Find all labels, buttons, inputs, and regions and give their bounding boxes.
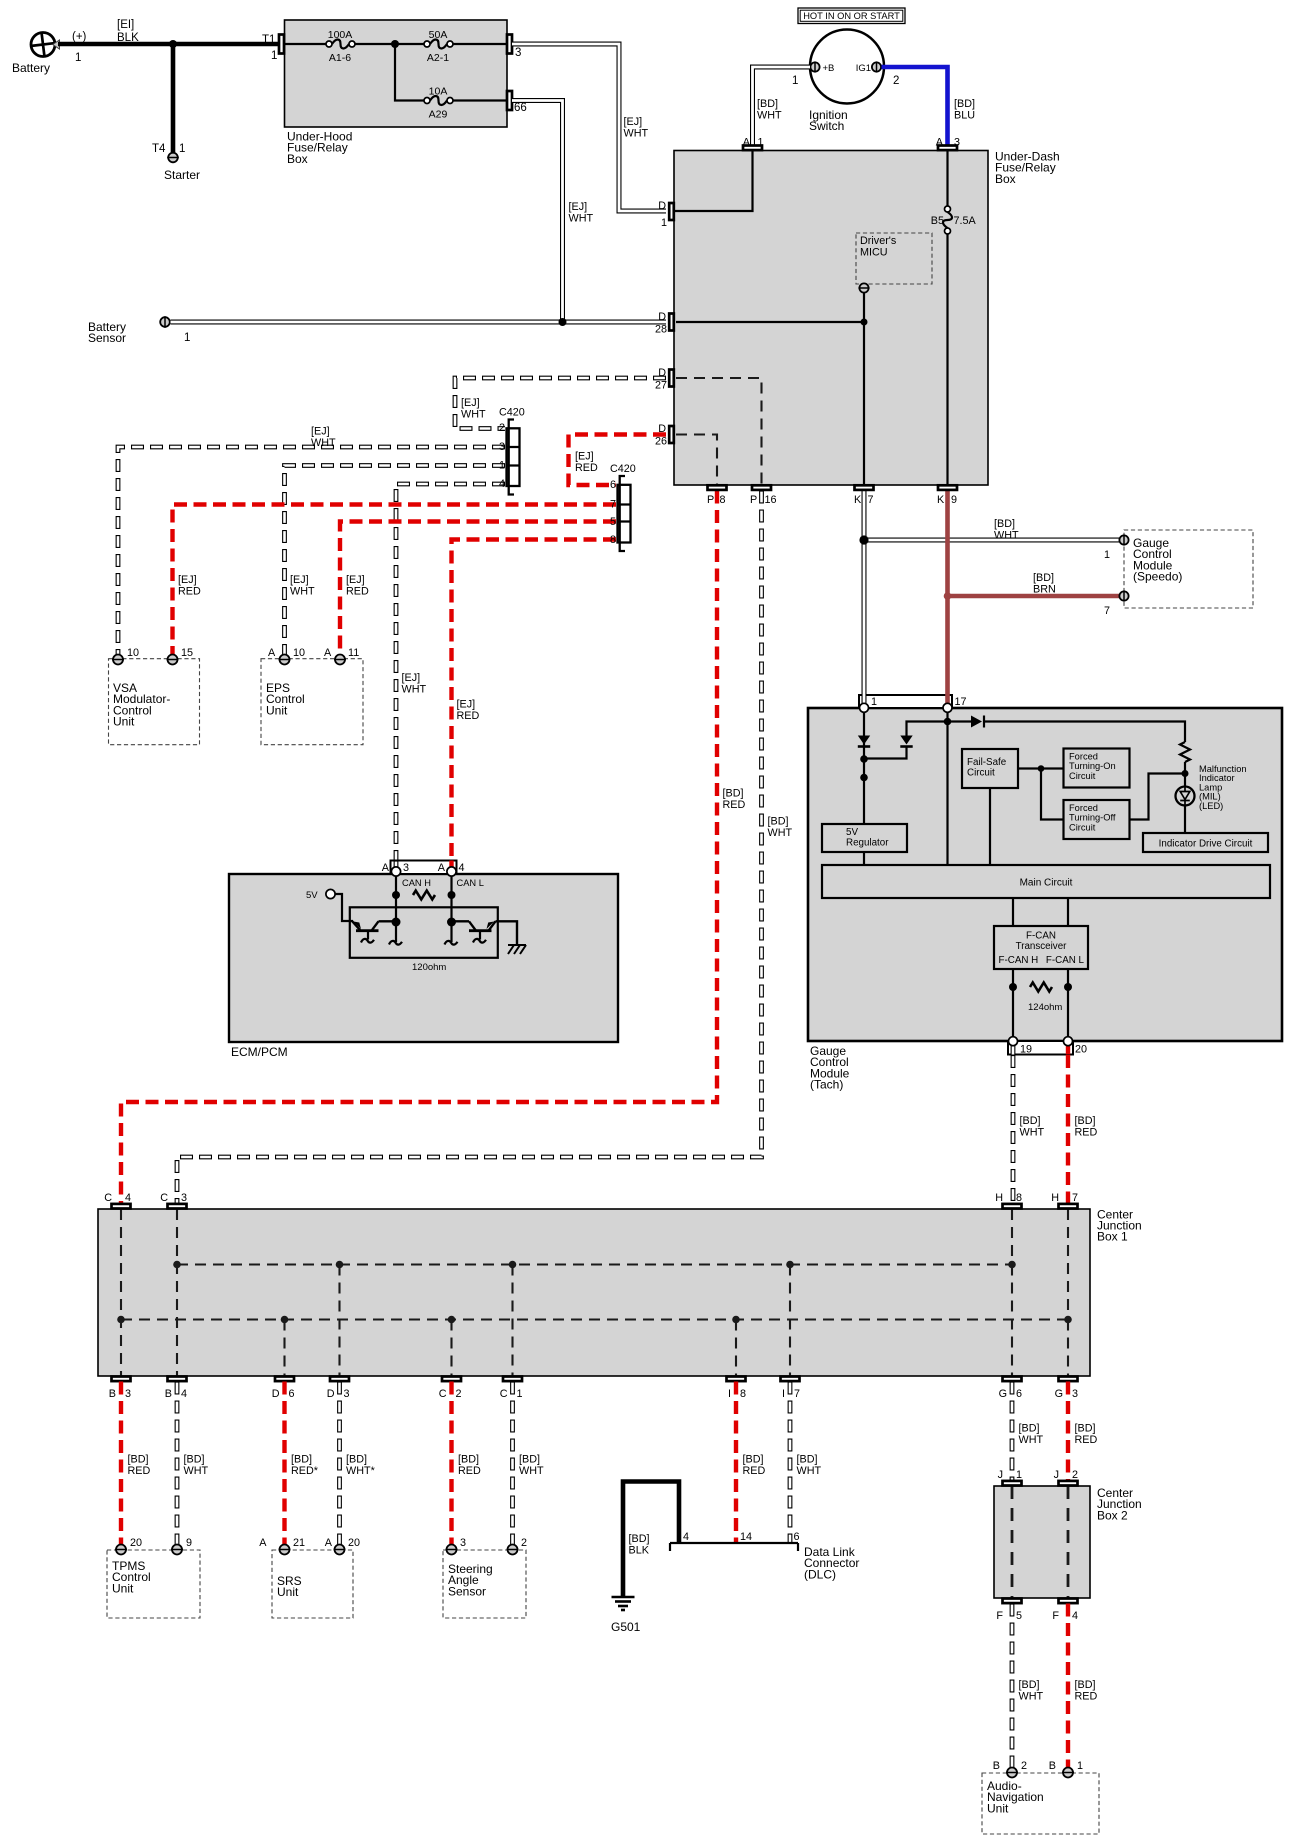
svg-text:4: 4 — [125, 1192, 131, 1204]
connector C420 lower — [610, 463, 636, 551]
junction CAN L — [448, 891, 456, 899]
svg-text:WHT: WHT — [1020, 1126, 1045, 1138]
wire [BD] WHT C1 to steering angle sensor 2 — [513, 1382, 544, 1545]
wire in fuse box upper row — [285, 43, 508, 45]
tach junction d — [1182, 770, 1189, 777]
svg-text:5V: 5V — [306, 890, 318, 901]
svg-text:[EJ]: [EJ] — [290, 574, 309, 586]
ECM 120ohm resistor — [412, 891, 446, 973]
wire [BD] WHT K7 to tach pin1 and speedo pin1 — [864, 491, 1120, 697]
fuse A2-1 50A — [424, 29, 453, 64]
wire [BD] WHT I7 to DLC 6 — [790, 1382, 821, 1544]
svg-text:20: 20 — [130, 1537, 142, 1549]
svg-text:A29: A29 — [429, 109, 448, 121]
svg-text:T1: T1 — [262, 34, 275, 46]
connector K7 — [854, 485, 874, 506]
svg-text:Box: Box — [995, 172, 1016, 186]
gauge control module (speedo) — [1119, 530, 1253, 608]
svg-text:6: 6 — [1016, 1388, 1022, 1400]
svg-text:3: 3 — [515, 47, 521, 59]
svg-text:Unit: Unit — [987, 1801, 1009, 1815]
svg-text:P: P — [707, 494, 714, 506]
svg-text:9: 9 — [186, 1537, 192, 1549]
svg-text:3: 3 — [403, 862, 409, 874]
svg-text:Fail-Safe: Fail-Safe — [967, 757, 1007, 768]
connector D28 — [655, 311, 674, 336]
fuse A1-6 100A — [326, 29, 355, 64]
svg-text:D: D — [658, 200, 666, 212]
svg-text:1: 1 — [871, 696, 877, 708]
svg-text:I: I — [782, 1388, 785, 1400]
svg-text:F-CAN H: F-CAN H — [999, 955, 1039, 966]
svg-text:6: 6 — [289, 1388, 295, 1400]
svg-text:2: 2 — [893, 75, 899, 87]
connector A3 — [936, 137, 960, 151]
svg-text:[BD]: [BD] — [184, 1454, 205, 1466]
svg-text:1: 1 — [179, 143, 185, 155]
svg-text:G: G — [999, 1388, 1007, 1400]
wire [EJ] WHT pin66 to battery sensor line — [512, 101, 593, 323]
svg-text:20: 20 — [1075, 1044, 1087, 1056]
wire [EJ] RED C420 pin8 to ECM pinA4 — [452, 540, 617, 867]
ECM 5V supply — [306, 889, 353, 921]
svg-text:WHT: WHT — [1019, 1690, 1044, 1702]
ECM left transistor — [352, 921, 392, 943]
connector I7 — [781, 1377, 801, 1401]
connector T1 pin 1 — [262, 34, 284, 62]
svg-text:Turning-Off: Turning-Off — [1069, 813, 1116, 823]
svg-text:[BD]: [BD] — [723, 788, 744, 800]
5V regulator — [822, 824, 907, 865]
wire [BD] RED* D6 to SRS A21 — [285, 1382, 319, 1545]
svg-text:J: J — [1054, 1469, 1059, 1481]
svg-text:Sensor: Sensor — [448, 1584, 486, 1598]
svg-text:WHT*: WHT* — [346, 1465, 376, 1477]
svg-text:B: B — [993, 1760, 1000, 1772]
svg-text:Box 2: Box 2 — [1097, 1508, 1128, 1522]
svg-text:A: A — [324, 647, 332, 659]
wire [BD] WHT B4 to TPMS 9 — [177, 1382, 208, 1545]
svg-text:BLU: BLU — [954, 109, 975, 121]
svg-text:1: 1 — [499, 460, 505, 472]
svg-text:5: 5 — [1016, 1610, 1022, 1622]
wire [EJ] WHT D27 to C420 pin2 — [455, 378, 666, 429]
tach wire pin1 branch — [863, 712, 865, 824]
svg-text:(+): (+) — [72, 31, 87, 43]
wire [BD] RED tach pin20 to H7 — [1068, 1055, 1097, 1203]
connector D27 — [655, 367, 674, 392]
forced turning-on circuit — [1064, 749, 1130, 788]
svg-text:10A: 10A — [429, 86, 448, 98]
svg-text:[BD]: [BD] — [458, 1454, 479, 1466]
center junction box 1 — [98, 1207, 1142, 1376]
svg-text:26: 26 — [655, 436, 667, 448]
tach branch to forced turning-off — [1130, 774, 1186, 820]
indicator drive circuit — [1143, 833, 1268, 852]
audio-navigation unit — [982, 1760, 1099, 1834]
connector F5 — [996, 1599, 1022, 1623]
CJB1 internal bus wires — [121, 1209, 1068, 1376]
svg-text:IG1: IG1 — [856, 63, 871, 74]
CJB1 bus junctions row1 — [173, 1261, 1016, 1269]
fuse B5 7.5A — [931, 206, 977, 234]
svg-text:[BD]: [BD] — [1019, 1423, 1040, 1435]
tach wires main to F-CAN transceiver — [1013, 898, 1068, 926]
svg-text:F-CAN: F-CAN — [1026, 931, 1056, 942]
svg-text:1: 1 — [792, 75, 798, 87]
svg-text:G: G — [1055, 1388, 1063, 1400]
svg-text:K: K — [937, 494, 945, 506]
wire [EJ] RED D26 to C420 pin6 — [569, 435, 667, 486]
center junction box 2 — [994, 1486, 1142, 1598]
svg-text:[BD]: [BD] — [1075, 1679, 1096, 1691]
wire [BD] BLK DLC 4 to G501 — [623, 1482, 679, 1597]
svg-text:[BD]: [BD] — [757, 98, 778, 110]
connector G6 — [999, 1377, 1022, 1401]
svg-text:WHT: WHT — [461, 408, 486, 420]
svg-text:27: 27 — [655, 380, 667, 392]
svg-text:A: A — [438, 862, 446, 874]
svg-text:3: 3 — [460, 1537, 466, 1549]
svg-text:+B: +B — [823, 63, 835, 74]
connector C2 — [439, 1377, 462, 1401]
svg-text:C: C — [160, 1192, 168, 1204]
wire to starter — [171, 44, 176, 152]
tach diode 3 and top rail — [948, 716, 1186, 743]
svg-text:Box 1: Box 1 — [1097, 1230, 1128, 1244]
svg-text:[EI]: [EI] — [117, 19, 134, 31]
svg-text:D: D — [272, 1388, 280, 1400]
wire [EJ] RED C420 pin5 to EPS pinA11 — [340, 522, 616, 655]
svg-text:7: 7 — [794, 1388, 800, 1400]
wire [BD] WHT ignition +B to A1 — [753, 67, 811, 145]
fail-safe circuit — [962, 749, 1018, 788]
svg-text:Driver's: Driver's — [860, 235, 897, 247]
svg-text:B5: B5 — [931, 215, 944, 227]
svg-text:WHT: WHT — [797, 1465, 822, 1477]
svg-text:Forced: Forced — [1069, 803, 1098, 813]
ignition switch — [792, 30, 899, 134]
svg-text:RED: RED — [346, 585, 369, 597]
svg-text:[EJ]: [EJ] — [575, 451, 594, 463]
wire [BD] RED P8 to C4 — [121, 491, 745, 1204]
svg-text:H: H — [1051, 1192, 1059, 1204]
connector P16 — [750, 485, 777, 506]
svg-text:Main Circuit: Main Circuit — [1020, 878, 1073, 889]
connector I8 — [727, 1377, 747, 1401]
svg-text:WHT: WHT — [768, 827, 793, 839]
SRS unit — [259, 1537, 360, 1618]
battery — [12, 31, 87, 75]
svg-text:3: 3 — [125, 1388, 131, 1400]
connector C4 — [104, 1192, 131, 1209]
svg-text:7: 7 — [610, 499, 616, 511]
svg-text:WHT: WHT — [184, 1465, 209, 1477]
svg-text:Circuit: Circuit — [967, 768, 995, 779]
svg-text:C: C — [500, 1388, 508, 1400]
svg-text:[BD]: [BD] — [629, 1533, 650, 1545]
svg-text:8: 8 — [1016, 1192, 1022, 1204]
tach diode 1 — [858, 736, 870, 745]
under-hood fuse/relay box — [285, 20, 508, 166]
svg-text:4: 4 — [181, 1388, 187, 1400]
svg-text:8: 8 — [720, 494, 726, 506]
svg-text:[BD]: [BD] — [1019, 1679, 1040, 1691]
svg-text:124ohm: 124ohm — [1028, 1002, 1062, 1013]
svg-text:[BD]: [BD] — [291, 1454, 312, 1466]
svg-text:I: I — [728, 1388, 731, 1400]
svg-text:F-CAN L: F-CAN L — [1046, 955, 1085, 966]
CJB1 bus junctions row2 — [117, 1316, 1072, 1324]
svg-text:K: K — [854, 494, 862, 506]
connector C3 — [160, 1192, 187, 1209]
tach wires F-CAN down to pins 19/20 — [1013, 969, 1068, 1036]
svg-text:15: 15 — [181, 647, 193, 659]
svg-text:Regulator: Regulator — [846, 838, 889, 849]
ECM connector A3/A4 — [382, 861, 465, 877]
svg-text:HOT IN ON OR START: HOT IN ON OR START — [803, 11, 900, 21]
svg-text:1: 1 — [758, 137, 764, 149]
junction in fuse box — [391, 40, 399, 48]
svg-text:8: 8 — [610, 534, 616, 546]
svg-text:Circuit: Circuit — [1069, 822, 1096, 832]
forced turning-off circuit — [1064, 800, 1130, 839]
svg-text:3: 3 — [344, 1388, 350, 1400]
svg-text:Sensor: Sensor — [88, 331, 126, 345]
tach main circuit — [822, 865, 1270, 898]
wire [BD] WHT P16 to C3 — [177, 491, 792, 1204]
tach resistor — [1180, 742, 1190, 762]
data link connector DLC — [670, 1531, 859, 1581]
svg-text:4: 4 — [459, 862, 465, 874]
svg-text:1: 1 — [184, 332, 190, 344]
svg-text:5: 5 — [610, 516, 616, 528]
ECM right transistor — [456, 921, 496, 942]
svg-text:[EJ]: [EJ] — [346, 574, 365, 586]
svg-text:16: 16 — [765, 494, 777, 506]
connector J1 — [998, 1469, 1022, 1486]
svg-text:[EJ]: [EJ] — [461, 397, 480, 409]
svg-text:[EJ]: [EJ] — [402, 672, 421, 684]
HOT IN ON OR START banner — [798, 8, 905, 24]
fuse A29 10A — [424, 86, 453, 121]
svg-text:1: 1 — [1104, 549, 1110, 561]
svg-text:Switch: Switch — [809, 119, 844, 133]
gauge control module (tach) box — [808, 708, 1282, 1092]
tach 124ohm resistor — [1028, 983, 1062, 1014]
svg-text:F: F — [1052, 1610, 1059, 1622]
wire D27 to P16 dashed — [676, 378, 762, 485]
starter T4 pin 1 — [152, 143, 200, 182]
svg-text:WHT: WHT — [624, 127, 649, 139]
svg-text:4: 4 — [683, 1531, 689, 1543]
svg-text:1: 1 — [1077, 1760, 1083, 1772]
svg-text:B: B — [1049, 1760, 1056, 1772]
wire [EJ] WHT label EPS A10 — [290, 574, 315, 597]
svg-text:[BD]: [BD] — [797, 1454, 818, 1466]
tach junction b — [860, 774, 868, 782]
svg-text:A: A — [382, 862, 390, 874]
svg-text:WHT: WHT — [519, 1465, 544, 1477]
wire [BD] WHT G6 to J1 — [1012, 1382, 1043, 1481]
wire [BD] RED I8 to DLC 14 — [736, 1382, 765, 1544]
svg-text:[EJ]: [EJ] — [569, 201, 588, 213]
svg-text:3: 3 — [181, 1192, 187, 1204]
connector C420 upper — [499, 407, 525, 495]
junction on K9 wire — [944, 592, 952, 600]
svg-text:T4: T4 — [152, 143, 166, 155]
svg-text:G501: G501 — [611, 1620, 641, 1634]
connector D6 — [272, 1377, 295, 1401]
svg-text:(DLC): (DLC) — [804, 1567, 836, 1581]
svg-text:J: J — [998, 1469, 1003, 1481]
svg-text:[EJ]: [EJ] — [457, 699, 476, 711]
tach top connector pins 1/17 — [859, 694, 967, 712]
wire in fuse box lower row — [395, 44, 507, 101]
TPMS control unit — [107, 1537, 200, 1618]
svg-text:RED: RED — [178, 585, 201, 597]
svg-text:Battery: Battery — [12, 61, 50, 75]
svg-text:WHT: WHT — [757, 109, 782, 121]
wire [EJ] RED C420 pin7 to VSA pin15 — [173, 505, 617, 655]
svg-text:120ohm: 120ohm — [412, 962, 446, 973]
svg-text:14: 14 — [740, 1531, 752, 1543]
connector A1 — [743, 137, 764, 151]
svg-text:Circuit: Circuit — [1069, 771, 1096, 781]
connector B3 — [109, 1377, 131, 1401]
svg-text:RED: RED — [1075, 1690, 1098, 1702]
svg-text:7: 7 — [1072, 1192, 1078, 1204]
svg-text:2: 2 — [499, 422, 505, 434]
connector J2 — [1054, 1469, 1078, 1486]
svg-text:[BD]: [BD] — [128, 1454, 149, 1466]
svg-text:100A: 100A — [328, 29, 353, 41]
svg-text:F: F — [996, 1610, 1003, 1622]
svg-text:4: 4 — [1072, 1610, 1078, 1622]
svg-text:[BD]: [BD] — [954, 98, 975, 110]
wire [BD] WHT F5 to audio-navigation B2 — [1012, 1604, 1043, 1769]
wire A3 to K9 inside box — [946, 151, 948, 485]
svg-text:A: A — [936, 137, 944, 149]
tach wire MIL to indicator drive circuit — [1184, 806, 1186, 834]
svg-text:RED: RED — [458, 1465, 481, 1477]
svg-text:BRN: BRN — [1033, 583, 1056, 595]
svg-text:[BD]: [BD] — [1020, 1115, 1041, 1127]
svg-text:B: B — [109, 1388, 116, 1400]
svg-text:6: 6 — [794, 1531, 800, 1543]
tach bottom connector pins 19/20 — [1008, 1037, 1087, 1056]
svg-text:[BD]: [BD] — [768, 816, 789, 828]
steering angle sensor — [443, 1537, 527, 1618]
svg-text:P: P — [750, 494, 757, 506]
svg-text:H: H — [995, 1192, 1003, 1204]
VSA modulator-control unit — [109, 647, 200, 745]
svg-text:Transceiver: Transceiver — [1016, 941, 1068, 952]
svg-text:MICU: MICU — [860, 247, 888, 259]
svg-text:2: 2 — [1072, 1469, 1078, 1481]
svg-text:19: 19 — [1020, 1044, 1032, 1056]
tach wire pin17 down to main circuit — [946, 713, 948, 866]
svg-text:Turning-On: Turning-On — [1069, 761, 1116, 771]
svg-text:1: 1 — [661, 217, 667, 229]
wire [EJ] WHT C420 pin3 to VSA pin10 — [118, 426, 505, 655]
svg-text:[BD]: [BD] — [1033, 572, 1054, 584]
svg-text:A: A — [743, 137, 751, 149]
svg-text:WHT: WHT — [290, 585, 315, 597]
svg-text:21: 21 — [293, 1537, 305, 1549]
svg-text:RED: RED — [128, 1465, 151, 1477]
svg-text:A: A — [259, 1537, 267, 1549]
svg-text:(Speedo): (Speedo) — [1133, 570, 1182, 584]
svg-text:[EJ]: [EJ] — [311, 426, 330, 438]
ECM/PCM box — [229, 874, 618, 1059]
svg-text:50A: 50A — [429, 29, 448, 41]
svg-text:RED*: RED* — [291, 1465, 319, 1477]
svg-text:[BD]: [BD] — [1075, 1423, 1096, 1435]
svg-text:1: 1 — [1016, 1469, 1022, 1481]
svg-text:Indicator Drive Circuit: Indicator Drive Circuit — [1159, 839, 1253, 850]
svg-text:[EJ]: [EJ] — [624, 116, 643, 128]
svg-text:3: 3 — [1072, 1388, 1078, 1400]
svg-text:9: 9 — [951, 494, 957, 506]
EPS control unit — [261, 647, 363, 745]
svg-text:7: 7 — [1104, 605, 1110, 617]
ECM transceiver inner box — [350, 907, 498, 958]
svg-text:RED: RED — [575, 462, 598, 474]
junction on battery sensor wire — [559, 318, 567, 326]
svg-text:1: 1 — [271, 50, 277, 62]
svg-text:11: 11 — [348, 647, 359, 659]
svg-text:1: 1 — [75, 52, 81, 64]
ECM CAN wires — [396, 876, 484, 922]
wire [BD] RED G3 to J2 — [1068, 1382, 1097, 1481]
svg-text:6: 6 — [610, 479, 616, 491]
connector pin 3 — [507, 35, 521, 60]
connector D26 — [655, 423, 674, 448]
wire [BD] RED F4 to audio-navigation B1 — [1068, 1604, 1097, 1769]
connector D3 — [327, 1377, 350, 1401]
svg-text:WHT: WHT — [402, 683, 427, 695]
connector P8 — [707, 485, 727, 506]
svg-text:BLK: BLK — [629, 1544, 650, 1556]
wire [EJ] WHT C420 pin1 to EPS pinA10 — [285, 466, 506, 655]
wire [BD] BRN K9 to tach pin17 and speedo pin7 — [948, 491, 1120, 697]
svg-text:(Tach): (Tach) — [810, 1078, 843, 1092]
junction D28/K7/MICU — [861, 319, 868, 326]
svg-text:5V: 5V — [846, 827, 858, 838]
svg-text:[BD]: [BD] — [1075, 1115, 1096, 1127]
svg-text:3: 3 — [499, 441, 505, 453]
tach junction c — [944, 718, 952, 726]
junction battery/starter — [169, 40, 177, 48]
wire A1 to D1 inside box — [674, 151, 753, 212]
connector F4 — [1052, 1599, 1078, 1623]
svg-text:B: B — [165, 1388, 172, 1400]
svg-text:WHT: WHT — [311, 437, 336, 449]
tach diode 2 — [900, 736, 912, 745]
tach fail-safe wires — [990, 765, 1064, 865]
svg-text:[BD]: [BD] — [519, 1454, 540, 1466]
connector pin 66 — [507, 91, 527, 114]
svg-text:8: 8 — [740, 1388, 746, 1400]
battery sensor — [88, 316, 190, 345]
junction F-CAN L — [1064, 983, 1072, 991]
svg-text:CAN H: CAN H — [402, 878, 431, 888]
malfunction indicator lamp MIL LED — [1176, 764, 1247, 811]
svg-text:20: 20 — [348, 1537, 360, 1549]
svg-text:10: 10 — [293, 647, 305, 659]
svg-text:D: D — [658, 311, 666, 323]
